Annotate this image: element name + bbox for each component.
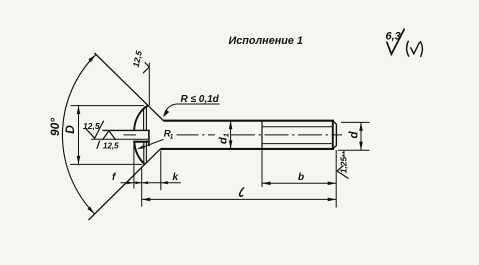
- extension line d bottom: [338, 149, 370, 151]
- label l: [240, 188, 244, 196]
- dimension d: [360, 122, 362, 150]
- extension line head bottom: [70, 163, 142, 165]
- svg-text:D: D: [63, 125, 77, 134]
- label d1: [218, 133, 231, 144]
- shaft bottom edge: [161, 148, 335, 150]
- svg-text:d: d: [349, 131, 361, 139]
- roughness 12,5 on slot face (lower): [102, 131, 115, 140]
- extension line head top: [71, 105, 145, 107]
- extension line screw end: [335, 150, 337, 208]
- extension line crown apex: [133, 144, 135, 189]
- extension line head max diameter plane: [141, 167, 143, 207]
- dimension l: [142, 198, 337, 200]
- dimension b: [262, 182, 336, 184]
- shaft top edge: [163, 120, 334, 122]
- svg-text:R ≤ 0,1d: R ≤ 0,1d: [181, 94, 220, 105]
- extension line from slot bottom up to roughness mark: [148, 63, 150, 106]
- roughness 1,25 on thread (rotated): [337, 165, 349, 178]
- roughness symbol in parentheses: [407, 41, 423, 56]
- svg-text:b: b: [298, 172, 304, 183]
- screw end line: [332, 121, 334, 149]
- svg-text:k: k: [173, 172, 179, 183]
- slot wall intersection lines lower: [143, 142, 145, 163]
- svg-text:1,25: 1,25: [339, 156, 349, 173]
- dimension line f/k: [121, 182, 181, 184]
- extension line thread start: [261, 150, 263, 187]
- dimension D: [78, 106, 80, 165]
- thread root line lower: [262, 143, 333, 145]
- slot bottom thick edge: [133, 141, 149, 143]
- roughness 12,5 on slot bottom (rotated, above head): [143, 62, 149, 73]
- svg-text:6,3: 6,3: [386, 31, 401, 43]
- slot bottom vertical line: [148, 130, 150, 147]
- head cone upper edge + extension line for 90deg: [95, 53, 164, 121]
- svg-text:90°: 90°: [48, 118, 62, 136]
- axis centerline: [124, 134, 137, 136]
- svg-text:12,5: 12,5: [83, 121, 100, 131]
- svg-text:**: **: [341, 150, 350, 157]
- svg-text:1: 1: [170, 134, 174, 141]
- svg-text:12,5: 12,5: [103, 141, 119, 150]
- slot lower thin line: [91, 138, 148, 140]
- head crown arc lower segment: [134, 142, 145, 165]
- head cone lower edge + extension line for 90deg: [89, 149, 161, 220]
- thread root line upper: [262, 126, 333, 128]
- head crown arc upper segment: [134, 106, 148, 131]
- chamfer at screw end: [333, 121, 337, 149]
- extension line d top: [341, 121, 370, 123]
- general roughness symbol 6,3: [387, 29, 404, 54]
- thread start line: [261, 121, 263, 149]
- dimension arc 90deg: [62, 55, 95, 214]
- svg-text:Исполнение 1: Исполнение 1: [229, 35, 303, 47]
- extension line cone-shaft junction: [160, 151, 162, 191]
- slot upper edge line: [103, 129, 150, 131]
- dimension d1: [230, 121, 232, 149]
- slot wall intersection lines upper: [143, 108, 145, 131]
